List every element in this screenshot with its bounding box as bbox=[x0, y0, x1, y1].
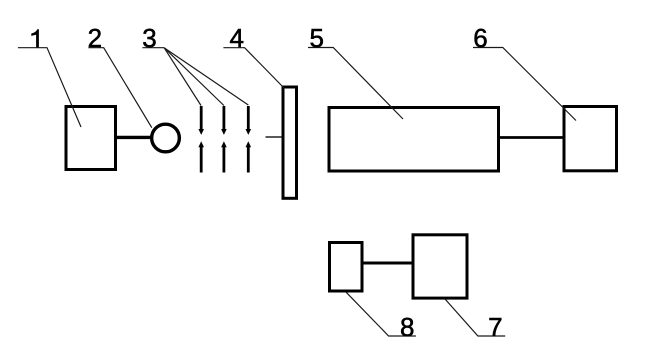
svg-text:2: 2 bbox=[88, 23, 102, 53]
svg-text:3: 3 bbox=[142, 23, 156, 53]
svg-text:7: 7 bbox=[488, 312, 502, 342]
svg-text:5: 5 bbox=[309, 23, 323, 53]
svg-text:4: 4 bbox=[229, 23, 243, 53]
svg-text:6: 6 bbox=[473, 23, 487, 53]
svg-text:8: 8 bbox=[400, 312, 414, 342]
